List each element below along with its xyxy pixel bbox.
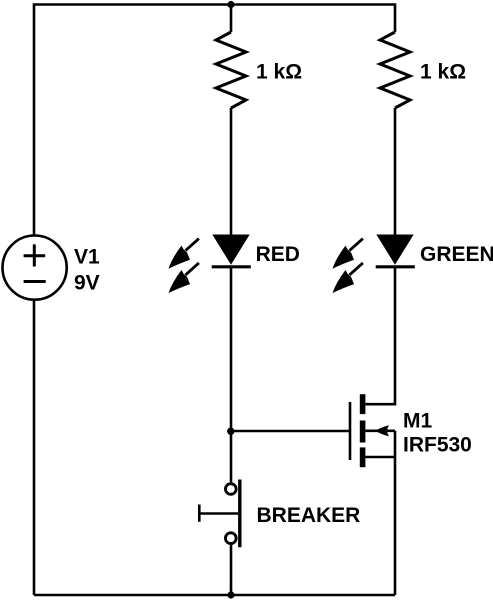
svg-text:IRF530: IRF530 [403, 433, 472, 456]
svg-text:RED: RED [256, 243, 300, 266]
svg-text:9V: 9V [74, 272, 100, 295]
svg-text:1 kΩ: 1 kΩ [256, 61, 302, 84]
svg-text:BREAKER: BREAKER [257, 504, 361, 527]
svg-text:V1: V1 [74, 245, 100, 268]
svg-text:M1: M1 [403, 410, 432, 433]
svg-text:1 kΩ: 1 kΩ [420, 61, 466, 84]
svg-text:GREEN: GREEN [420, 243, 493, 266]
